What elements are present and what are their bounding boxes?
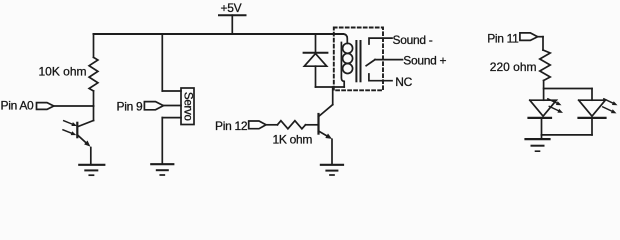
- svg-text:NC: NC: [395, 75, 412, 89]
- svg-text:+5V: +5V: [221, 1, 242, 15]
- svg-text:Pin A0: Pin A0: [1, 99, 35, 113]
- svg-text:Pin 11: Pin 11: [487, 31, 519, 45]
- svg-text:Pin 12: Pin 12: [215, 119, 248, 133]
- svg-text:Servo: Servo: [182, 92, 195, 121]
- svg-text:220 ohm: 220 ohm: [490, 60, 537, 74]
- svg-text:Sound -: Sound -: [393, 33, 433, 47]
- svg-text:Pin 9: Pin 9: [117, 100, 143, 114]
- svg-text:10K ohm: 10K ohm: [38, 65, 86, 79]
- svg-text:1K ohm: 1K ohm: [273, 133, 313, 147]
- svg-text:Sound +: Sound +: [403, 54, 446, 68]
